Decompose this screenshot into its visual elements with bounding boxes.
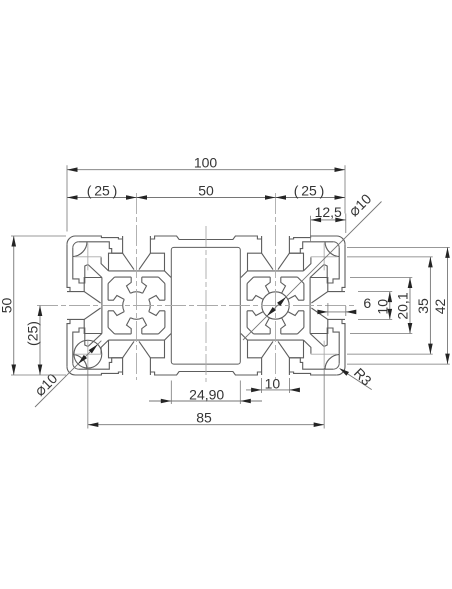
wire outer left-lower face: [67, 319, 70, 366]
svg-text:100: 100: [194, 154, 218, 170]
svg-text:12,5: 12,5: [315, 204, 342, 220]
dim 24,90 bottom: [149, 400, 262, 402]
wire outer top-mid face: [150, 236, 261, 240]
dim 85 bottom: [88, 424, 324, 426]
svg-text:35: 35: [415, 298, 431, 314]
horizontal centerline main: [37, 305, 356, 307]
wire outer bottom-mid face: [150, 372, 261, 376]
center mark BR: [311, 353, 338, 355]
svg-text:6: 6: [363, 295, 371, 311]
wire outer right-upper face: [342, 244, 345, 291]
center mark TL: [74, 256, 101, 258]
svg-text:24,90: 24,90: [189, 387, 224, 403]
wire outer left-upper face: [67, 244, 70, 291]
svg-text:50: 50: [198, 182, 214, 198]
wire outer bottom-right face: [289, 372, 336, 375]
wire outer bottom-left face: [67, 367, 123, 375]
vertical centerline main: [205, 226, 207, 382]
svg-text:10: 10: [265, 376, 281, 392]
svg-text:85: 85: [196, 410, 212, 426]
centerline slot2: [275, 193, 277, 380]
leader diameter 10 bottom-left: [35, 341, 101, 407]
svg-text:( 25 ): ( 25 ): [294, 182, 325, 198]
left core T-slots: [115, 276, 132, 278]
dim chain 25-50-25: [67, 197, 345, 199]
right core T-slots with bore D10: [254, 276, 271, 278]
central rectangular void: [171, 247, 240, 364]
svg-text:50: 50: [0, 298, 14, 314]
leader diameter 10 top-right: [243, 202, 382, 341]
svg-text:10: 10: [375, 299, 391, 315]
centerline slot1: [136, 193, 138, 380]
dim 12,5: [311, 219, 346, 221]
center mark TR: [311, 256, 338, 258]
wire outer top-left face: [67, 236, 123, 244]
wire outer right-lower face: [337, 319, 345, 375]
svg-text:(25): (25): [25, 321, 41, 346]
dim (25) left: [39, 306, 41, 376]
center mark BL: [74, 353, 101, 355]
dim 10 bottom: [246, 389, 297, 391]
bottom-right corner cavity: [333, 363, 339, 369]
dim 6 right: [319, 311, 356, 313]
svg-text:( 25 ): ( 25 ): [87, 182, 118, 198]
bottom-left corner cavity: [73, 363, 79, 369]
dim 42 right: [447, 247, 449, 364]
svg-text:20,1: 20,1: [395, 292, 411, 319]
top-left corner cavity: [73, 242, 79, 248]
dim 10 right: [389, 292, 391, 320]
dim 50 left overall: [13, 236, 15, 375]
svg-text:42: 42: [432, 299, 448, 315]
top-right corner cavity: [333, 242, 339, 248]
dim 35 right: [429, 257, 431, 354]
dim 100 overall width: [67, 169, 345, 171]
wire outer top-right face: [289, 236, 345, 244]
leader R3: [341, 369, 372, 389]
dim 20,1 right: [409, 278, 411, 334]
bottom-left corner bore D10: [74, 340, 102, 368]
